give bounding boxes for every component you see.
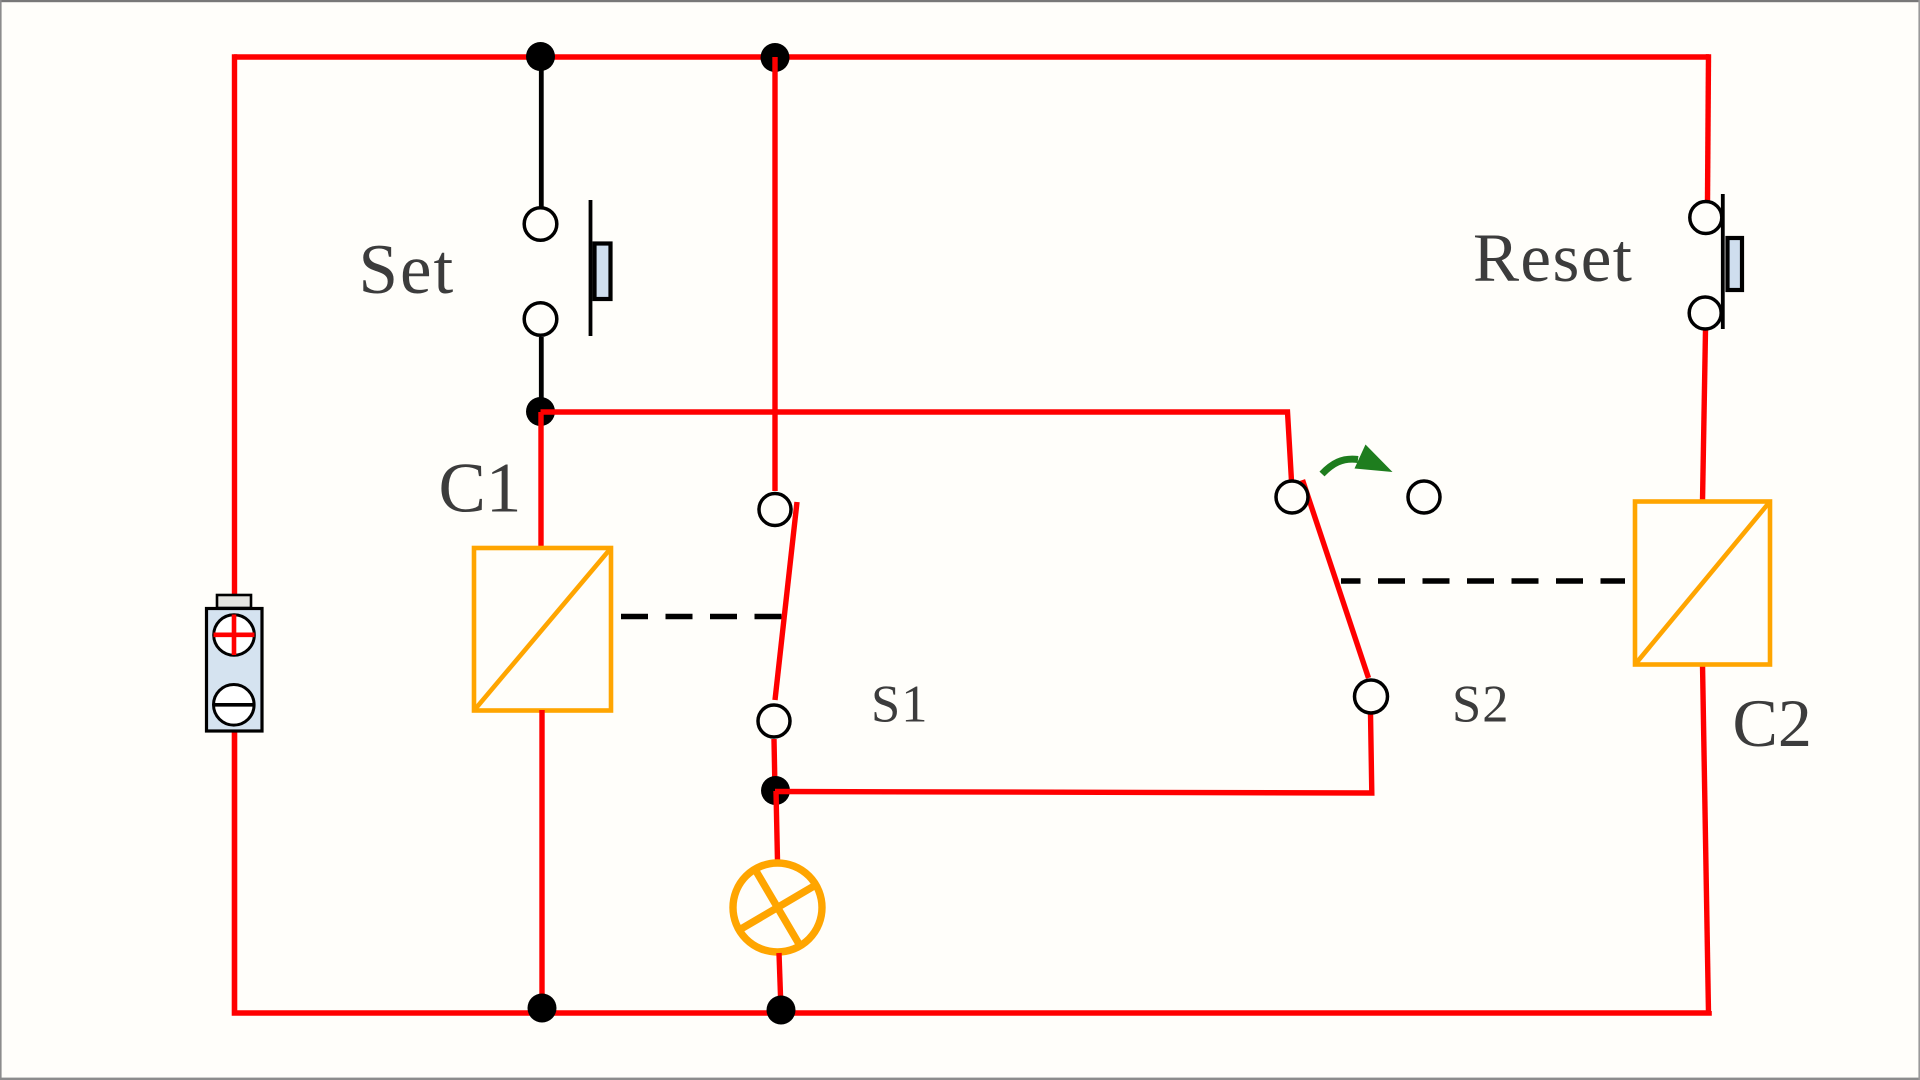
- wire left rail upper: [232, 54, 237, 595]
- switch S1: [758, 494, 797, 738]
- junction lamp bottom: [767, 996, 796, 1025]
- junction top S1: [761, 43, 790, 72]
- dashed mechanical link S2 to C2: [1341, 578, 1625, 584]
- switch S2: [1276, 480, 1440, 713]
- lamp L1: [733, 863, 822, 952]
- svg-text:S1: S1: [871, 676, 928, 734]
- wire S1 vertical from top junction: [772, 57, 777, 491]
- junction S1 bottom: [761, 776, 790, 805]
- wire S1 junction to S2 bottom: [775, 713, 1372, 793]
- relay coil C2: [1635, 502, 1770, 665]
- wire right rail middle (Reset to C2): [1703, 330, 1706, 502]
- svg-text:Reset: Reset: [1473, 220, 1633, 296]
- junction top Set: [526, 42, 555, 71]
- svg-text:C1: C1: [439, 450, 522, 528]
- wire horizontal node row (to S2): [541, 412, 1292, 481]
- push button Set: [524, 200, 610, 336]
- wire right rail upper: [1708, 54, 1709, 201]
- wire junction to lamp: [776, 791, 778, 861]
- green actuation arrow: [1322, 445, 1393, 475]
- junction C1 bottom: [528, 994, 557, 1023]
- push button Reset: [1689, 194, 1742, 329]
- svg-text:C2: C2: [1733, 685, 1812, 761]
- wire C1 branch lower: [539, 710, 544, 1008]
- wire S1 bottom to junction: [774, 739, 775, 791]
- wire right rail lower (C2 to bottom): [1703, 664, 1709, 1013]
- wire top rail: [234, 54, 1709, 60]
- dashed mechanical link C1 to S1: [621, 614, 785, 620]
- wire Set branch upper (black): [539, 57, 544, 207]
- wire bottom rail: [540, 1011, 1709, 1013]
- wire C1 branch upper: [538, 412, 543, 548]
- relay coil C1: [474, 548, 611, 711]
- junction Set bottom node: [526, 397, 555, 426]
- wire Set branch lower (black): [539, 337, 544, 405]
- battery B1: [207, 595, 263, 731]
- wire lamp to bottom junction: [779, 953, 781, 1010]
- svg-text:Set: Set: [359, 231, 456, 309]
- wire left rail lower: [235, 731, 541, 1013]
- svg-text:S2: S2: [1452, 676, 1509, 734]
